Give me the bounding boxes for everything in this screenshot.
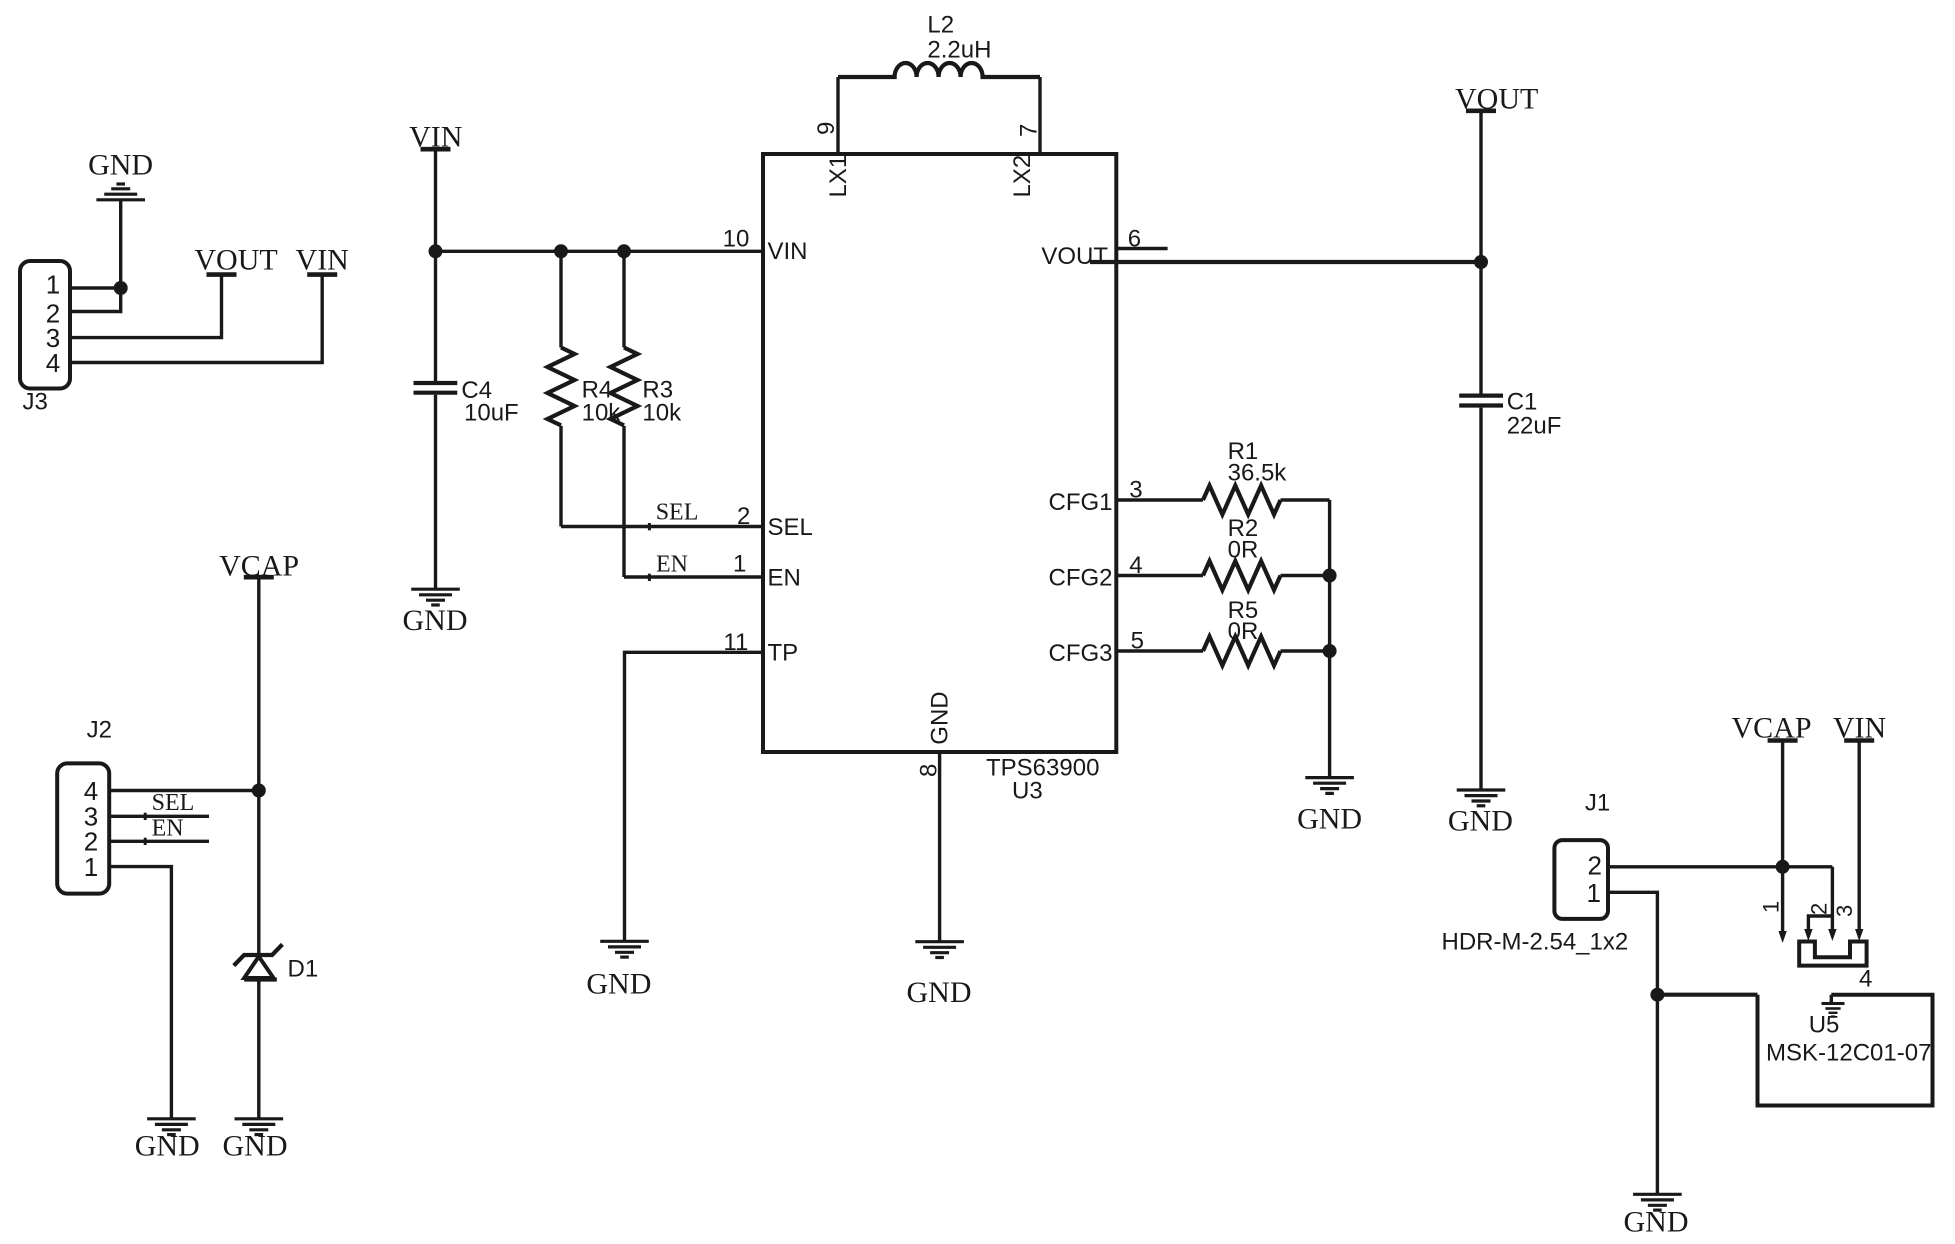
svg-text:1: 1 [46, 270, 60, 300]
svg-text:10k: 10k [642, 400, 682, 427]
resistor R3 [611, 251, 683, 577]
junction node R5 [1323, 644, 1337, 658]
svg-text:4: 4 [1129, 552, 1142, 579]
svg-text:2: 2 [737, 503, 750, 530]
svg-text:1: 1 [84, 852, 98, 882]
connector J2 [57, 717, 112, 894]
J2 pin 3 SEL wire [109, 790, 209, 820]
J3 pin 2 wire [70, 288, 121, 312]
pin 4 CFG2 wire [1048, 552, 1203, 592]
svg-text:5: 5 [1131, 628, 1144, 655]
junction node R3 [617, 244, 631, 258]
svg-text:J3: J3 [23, 389, 48, 416]
U5 pin 3 lead from VIN [1832, 741, 1863, 942]
VCAP power flag at J2 [219, 549, 299, 790]
svg-text:SEL: SEL [152, 790, 195, 816]
ground for C1 [1448, 790, 1513, 838]
svg-text:GND: GND [135, 1130, 200, 1163]
VOUT net wire [1090, 260, 1481, 264]
svg-text:2.2uH: 2.2uH [927, 37, 991, 64]
svg-text:D1: D1 [288, 956, 319, 983]
svg-text:J2: J2 [87, 717, 112, 744]
svg-text:TPS63900: TPS63900 [986, 755, 1099, 782]
J1 pin 1 wire [1608, 892, 1657, 1194]
ground flag above J3 (inverted) [88, 149, 153, 289]
connector J1 [1442, 790, 1629, 956]
svg-text:EN: EN [768, 565, 801, 592]
svg-text:GND: GND [1297, 803, 1362, 836]
wire to U5 body [1657, 993, 1757, 997]
svg-text:2: 2 [1807, 903, 1832, 915]
svg-text:9: 9 [813, 122, 840, 135]
IC U3 TPS63900 body [763, 154, 1116, 805]
U5 switch bridge [1804, 916, 1832, 941]
svg-text:GND: GND [927, 691, 954, 744]
svg-text:SEL: SEL [768, 514, 813, 541]
svg-text:MSK-12C01-07: MSK-12C01-07 [1766, 1040, 1931, 1067]
junction node VOUT/C1 [1474, 255, 1488, 269]
J3 pin 4 wire to VIN [70, 276, 322, 363]
svg-text:4: 4 [46, 348, 60, 378]
svg-text:L2: L2 [927, 12, 954, 39]
svg-text:3: 3 [1129, 477, 1142, 504]
U5 pin 4 stub [1831, 966, 1872, 1003]
svg-text:3: 3 [1832, 905, 1857, 917]
junction node R2 [1323, 569, 1337, 583]
svg-text:10: 10 [723, 226, 750, 253]
VIN power flag at J3 [296, 244, 349, 277]
inductor L2 [838, 12, 1040, 78]
ground for J2 pin 1 [135, 1119, 200, 1163]
svg-text:GND: GND [403, 604, 468, 637]
resistor R1 [1203, 438, 1330, 515]
pin 5 CFG3 wire [1048, 628, 1203, 668]
resistor R5 [1203, 597, 1330, 666]
svg-text:GND: GND [88, 149, 153, 182]
connector J3 [20, 261, 70, 416]
net label SEL [649, 500, 698, 531]
svg-text:VIN: VIN [296, 244, 349, 277]
pin 9 LX1 stub [813, 77, 852, 198]
svg-text:36.5k: 36.5k [1228, 460, 1288, 487]
svg-text:22uF: 22uF [1507, 413, 1562, 440]
CFG bus wire down [1328, 500, 1331, 777]
svg-text:TP: TP [768, 640, 799, 667]
resistor R2 [1203, 515, 1330, 590]
pin 2 SEL wire [561, 503, 813, 541]
svg-text:0R: 0R [1228, 537, 1259, 564]
svg-text:SEL: SEL [656, 500, 699, 526]
ground for pin 8 [907, 942, 972, 1009]
svg-text:1: 1 [1587, 878, 1601, 908]
small ground at U5 pin 4 [1822, 1004, 1845, 1017]
pin 8 GND wire [916, 691, 954, 941]
svg-text:J1: J1 [1585, 790, 1610, 817]
pin 6 VOUT stub [1041, 226, 1167, 271]
svg-text:EN: EN [152, 815, 184, 841]
pin 1 EN wire [624, 551, 801, 592]
svg-text:2: 2 [1588, 851, 1602, 881]
svg-text:VOUT: VOUT [194, 244, 277, 277]
U5 body MSK-12C01-07 [1758, 995, 1933, 1106]
junction node J1/U5 [1650, 988, 1664, 1002]
capacitor C4 [414, 251, 519, 589]
J2 pin 2 EN wire [109, 815, 209, 845]
pin 3 CFG1 wire [1048, 477, 1203, 517]
pin 7 LX2 stub [1009, 77, 1043, 198]
svg-text:8: 8 [916, 764, 943, 777]
VIN power flag at J1 [1833, 712, 1886, 745]
VCAP power flag at J1 [1731, 712, 1811, 867]
svg-text:HDR-M-2.54_1x2: HDR-M-2.54_1x2 [1442, 929, 1629, 956]
svg-text:EN: EN [656, 552, 688, 578]
VIN power flag top-left [409, 121, 462, 252]
pin 10 VIN wire [436, 226, 808, 266]
net label EN [649, 552, 688, 582]
ground for TP [586, 941, 651, 1000]
svg-text:GND: GND [1448, 805, 1513, 838]
U5 pin 2 lead [1807, 867, 1837, 941]
J3 pin 3 wire to VOUT [70, 276, 222, 338]
pin 11 TP wire [625, 629, 799, 941]
J2 pin 1 wire to GND [109, 867, 171, 1118]
svg-text:11: 11 [723, 629, 748, 656]
U5 pin 1 lead [1759, 867, 1787, 943]
svg-text:LX1: LX1 [825, 155, 852, 198]
junction node R4 [554, 244, 568, 258]
junction node VCAP/U5 [1776, 860, 1790, 874]
junction node J3 GND [114, 281, 128, 295]
svg-text:VIN: VIN [768, 238, 808, 265]
svg-text:1: 1 [733, 551, 746, 578]
J1 pin 2 wire [1608, 865, 1832, 868]
ground for C4 [403, 589, 468, 637]
svg-text:GND: GND [223, 1130, 288, 1163]
svg-text:VOUT: VOUT [1041, 243, 1108, 270]
svg-text:U3: U3 [1012, 778, 1043, 805]
capacitor C1 [1459, 262, 1561, 790]
U5 switch contact bracket [1799, 942, 1866, 966]
resistor R4 [548, 251, 622, 526]
svg-text:GND: GND [586, 968, 651, 1001]
junction node VIN/C4 [429, 244, 443, 258]
J3 pin 1 wire [70, 286, 121, 289]
ground for CFG resistors [1297, 778, 1362, 836]
zener diode D1 [234, 791, 318, 1118]
svg-text:GND: GND [1624, 1206, 1689, 1239]
VOUT power flag top-right [1455, 83, 1538, 263]
svg-text:10uF: 10uF [464, 400, 519, 427]
junction node VCAP/D1 [252, 784, 266, 798]
VOUT power flag at J3 [194, 244, 277, 277]
J2 pin 4 wire to VCAP [109, 789, 259, 792]
svg-text:GND: GND [907, 976, 972, 1009]
svg-text:LX2: LX2 [1009, 155, 1036, 198]
svg-text:4: 4 [1859, 966, 1872, 993]
svg-text:CFG2: CFG2 [1048, 565, 1112, 592]
svg-text:7: 7 [1016, 124, 1043, 137]
ground for J1 [1624, 1194, 1689, 1238]
svg-text:CFG1: CFG1 [1048, 489, 1112, 516]
svg-text:0R: 0R [1228, 618, 1259, 645]
svg-text:6: 6 [1128, 226, 1141, 253]
svg-text:1: 1 [1759, 901, 1784, 913]
svg-text:CFG3: CFG3 [1048, 640, 1112, 667]
svg-text:C1: C1 [1507, 389, 1538, 416]
ground for D1 [223, 1119, 288, 1163]
